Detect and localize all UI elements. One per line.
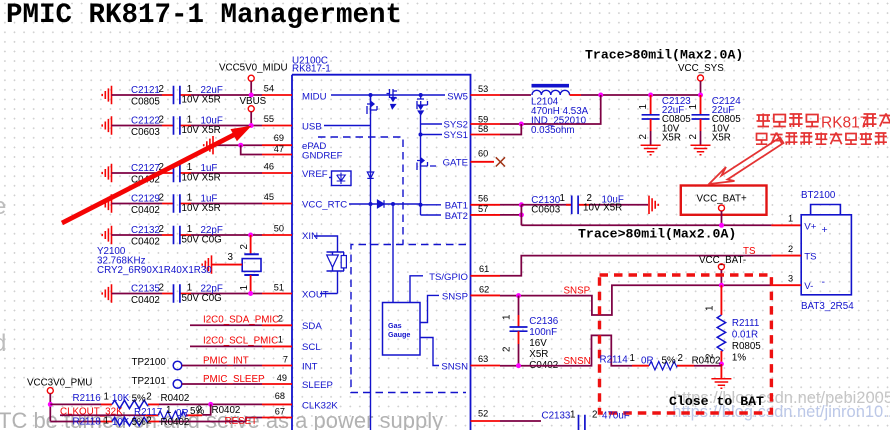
wire ePAD row bbox=[213, 144, 262, 146]
svg-text:2: 2 bbox=[146, 392, 151, 403]
wire C2123 to ground bbox=[650, 131, 652, 145]
junction CLK32K/R2117 bbox=[208, 402, 213, 407]
resistor R2111 lead top bbox=[720, 285, 722, 315]
internal wire TS/GPIO bbox=[410, 276, 423, 303]
test point TP2101 bbox=[173, 380, 182, 389]
svg-text:2: 2 bbox=[788, 244, 793, 254]
wire VCC5V0_MIDU stem bbox=[250, 81, 252, 95]
junction VCC3V0/R2116 bbox=[48, 402, 53, 407]
svg-text:SW5: SW5 bbox=[447, 92, 468, 103]
svg-text:X5R: X5R bbox=[662, 132, 681, 143]
internal vertical SYS/BAT rail bbox=[420, 115, 422, 215]
svg-text:1: 1 bbox=[104, 416, 109, 427]
internal wire to gas gauge bbox=[392, 204, 394, 303]
power symbol VCC_BAT+ bbox=[719, 205, 725, 211]
pin 62 stub (right) bbox=[471, 294, 501, 296]
svg-text:10K: 10K bbox=[112, 417, 130, 428]
svg-text:63: 63 bbox=[478, 354, 488, 364]
svg-text:RK817-1: RK817-1 bbox=[292, 64, 331, 75]
svg-text:R2116: R2116 bbox=[73, 393, 102, 404]
svg-text:XOUT: XOUT bbox=[302, 290, 329, 301]
svg-text:1: 1 bbox=[705, 306, 716, 311]
junction XOUT row bbox=[248, 291, 253, 296]
wire BAT junction drop bbox=[520, 205, 522, 226]
svg-text:10V X5R: 10V X5R bbox=[182, 125, 221, 136]
svg-text:1%: 1% bbox=[732, 353, 746, 364]
svg-text:VREF: VREF bbox=[302, 169, 328, 180]
svg-text:7: 7 bbox=[283, 355, 288, 365]
gas gauge box bbox=[383, 303, 421, 356]
svg-text:1: 1 bbox=[187, 115, 192, 126]
ground symbol (ePAD row) bbox=[204, 136, 213, 154]
svg-text:e: e bbox=[0, 193, 6, 220]
transistor Q internal GATE fet bbox=[417, 159, 436, 171]
svg-text:10V X5R: 10V X5R bbox=[182, 95, 221, 106]
resistor R2116 leads bbox=[101, 403, 159, 405]
svg-text:C0402: C0402 bbox=[131, 295, 160, 306]
svg-text:2: 2 bbox=[146, 416, 151, 427]
wire SW5 to inductor bbox=[500, 94, 531, 96]
capacitor C2122 leads bbox=[162, 125, 191, 127]
junction C2136 bottom bbox=[516, 363, 521, 368]
svg-text:C2132: C2132 bbox=[131, 225, 160, 236]
svg-text:d: d bbox=[0, 330, 6, 357]
svg-text:2: 2 bbox=[159, 115, 164, 126]
ground symbol (R2111) bbox=[711, 379, 731, 388]
wire C2129 row left bbox=[112, 203, 163, 205]
wire SYS2 bbox=[500, 123, 521, 125]
svg-text:PMIC_INT: PMIC_INT bbox=[203, 355, 249, 366]
highlight box VCC_BAT+ bbox=[681, 186, 767, 215]
svg-text:1: 1 bbox=[187, 84, 192, 95]
svg-text:1: 1 bbox=[187, 162, 192, 173]
svg-text:I2C0_SDA_PMIC: I2C0_SDA_PMIC bbox=[203, 315, 279, 326]
svg-text:SNSN: SNSN bbox=[441, 362, 468, 373]
pin 52 stub (right) bbox=[471, 420, 501, 422]
transistor Q internal 1 bbox=[367, 95, 377, 114]
svg-text:45: 45 bbox=[264, 192, 274, 202]
pin 63 stub (right) bbox=[471, 365, 501, 367]
capacitor C2122 bbox=[174, 116, 180, 135]
wire C2132 row left bbox=[112, 234, 163, 236]
svg-text:SNSN: SNSN bbox=[564, 356, 591, 367]
wire RESET row (CLKOUT segment) bbox=[60, 414, 145, 416]
ground symbol (crystal pin3) bbox=[202, 255, 211, 273]
junction XIN row bbox=[248, 233, 253, 238]
svg-text:C2129: C2129 bbox=[131, 194, 160, 205]
svg-text:58: 58 bbox=[478, 124, 488, 134]
svg-text:I2C0_SCL_PMIC: I2C0_SCL_PMIC bbox=[203, 336, 278, 347]
svg-text:C0402: C0402 bbox=[131, 237, 160, 248]
capacitor C2136 lead bottom bbox=[518, 331, 520, 344]
oscillator XIN/XOUT internal bbox=[314, 236, 346, 294]
wire PMIC_INT bbox=[182, 365, 262, 367]
wire BAT2 bbox=[500, 214, 521, 216]
svg-text:C2133: C2133 bbox=[542, 411, 571, 422]
svg-text:2: 2 bbox=[159, 193, 164, 204]
svg-text:R0402: R0402 bbox=[161, 417, 190, 428]
internal stub BAT1 bbox=[421, 204, 442, 206]
svg-text:50: 50 bbox=[274, 224, 284, 234]
svg-text:0.035ohm: 0.035ohm bbox=[531, 125, 575, 136]
svg-text:2: 2 bbox=[688, 134, 699, 139]
svg-text:MIDU: MIDU bbox=[302, 92, 327, 103]
resistor R2111 lead bottom bbox=[720, 351, 722, 364]
wire battery V+ pin 1 bbox=[771, 224, 801, 226]
svg-text:3: 3 bbox=[228, 252, 234, 263]
svg-text:2: 2 bbox=[159, 84, 164, 95]
svg-text:69: 69 bbox=[274, 133, 284, 143]
wire R2111 to ground bbox=[720, 364, 722, 379]
wire SYS1 riser bbox=[500, 124, 521, 135]
internal dashed boundary 2 bbox=[351, 245, 466, 393]
pin 1 stub (left) bbox=[262, 345, 292, 347]
svg-text:SLEEP: SLEEP bbox=[302, 380, 333, 391]
pin 51 stub (left) bbox=[262, 293, 292, 295]
capacitor C2129 leads bbox=[162, 203, 191, 205]
svg-text:C0402: C0402 bbox=[131, 205, 160, 216]
wire RESET row to pin 67 bbox=[246, 418, 262, 422]
annotation Chinese trailing glyphs (cut) bbox=[863, 114, 890, 128]
svg-text:1: 1 bbox=[278, 335, 283, 345]
svg-text:VCC_SYS: VCC_SYS bbox=[678, 63, 724, 74]
svg-text:46: 46 bbox=[264, 162, 274, 172]
svg-text:BAT2: BAT2 bbox=[445, 211, 468, 222]
wire C2122 row right bbox=[191, 125, 262, 127]
svg-text:C2136: C2136 bbox=[529, 316, 558, 327]
svg-text:59: 59 bbox=[478, 115, 488, 125]
svg-text:16V: 16V bbox=[529, 338, 547, 349]
wire I2C0_SDA_PMIC bbox=[190, 324, 262, 326]
wire VCC_SYS rail bbox=[581, 94, 701, 96]
capacitor C2123 bbox=[642, 115, 660, 119]
wire C2135 row right bbox=[191, 293, 262, 295]
pin 69 stub (left) bbox=[262, 144, 292, 146]
svg-text:Gas: Gas bbox=[388, 321, 402, 330]
wire BAT1 bbox=[500, 204, 521, 206]
capacitor C2124 lead bottom bbox=[700, 119, 702, 131]
svg-text:R2118: R2118 bbox=[73, 417, 102, 428]
ground symbol (C2135 row) bbox=[102, 284, 111, 302]
svg-text:PMIC_SLEEP: PMIC_SLEEP bbox=[203, 374, 265, 385]
op-amp/IC U2100C RK817-1 block outline bbox=[292, 75, 471, 430]
svg-text:2: 2 bbox=[638, 134, 649, 139]
power symbol VCC5V0_MIDU bbox=[248, 75, 254, 81]
pin 57 stub (right) bbox=[471, 214, 501, 216]
transistor Q internal 3 (arrow down) bbox=[417, 95, 428, 115]
svg-text:GATE: GATE bbox=[443, 158, 468, 169]
svg-text:5%: 5% bbox=[132, 417, 146, 428]
wire R2117 to junction bbox=[202, 404, 211, 415]
internal junction BAT1 bbox=[419, 203, 423, 207]
capacitor C2130 leads bbox=[566, 204, 589, 206]
wire VCC_BAT+ rail bbox=[521, 224, 771, 226]
svg-text:1: 1 bbox=[570, 410, 575, 421]
wire C2121 row left bbox=[112, 94, 163, 96]
svg-text:3: 3 bbox=[788, 274, 793, 284]
svg-text:-: - bbox=[822, 276, 826, 288]
junction VCC_BAT- node bbox=[719, 283, 724, 288]
junction VCC_BAT+ bbox=[719, 223, 724, 228]
wire battery TS pin 2 bbox=[771, 255, 801, 257]
internal long vertical rail bbox=[370, 95, 372, 430]
internal stub SYS2 bbox=[421, 123, 443, 125]
svg-text:56: 56 bbox=[478, 194, 488, 204]
test point TP2100 bbox=[173, 361, 182, 370]
svg-text:TS/GPIO: TS/GPIO bbox=[429, 272, 468, 283]
svg-text:RK817: RK817 bbox=[821, 115, 868, 132]
diode D internal (on rail) bbox=[367, 172, 373, 178]
capacitor C2123 lead bottom bbox=[650, 119, 652, 131]
wire C2122 row left bbox=[112, 125, 163, 127]
svg-text:1: 1 bbox=[187, 283, 192, 294]
ground symbol (C2127 row) bbox=[102, 164, 111, 182]
wire SNSP net bbox=[500, 285, 771, 315]
svg-text:CRY2_6R90X1R40X1R30: CRY2_6R90X1R40X1R30 bbox=[97, 265, 212, 276]
wire C2132 row right bbox=[191, 234, 262, 236]
svg-text:61: 61 bbox=[479, 264, 489, 274]
wire PMIC_SLEEP bbox=[182, 383, 262, 385]
capacitor C2127 bbox=[174, 164, 180, 183]
junction USB row bbox=[249, 123, 254, 128]
svg-text:SNSP: SNSP bbox=[442, 292, 468, 303]
svg-text:VCC5V0_MIDU: VCC5V0_MIDU bbox=[219, 63, 288, 74]
capacitor C2127 leads bbox=[162, 172, 191, 174]
resistor R2116 bbox=[112, 400, 148, 408]
svg-text:100nF: 100nF bbox=[529, 327, 557, 338]
junction BAT1 bbox=[519, 202, 524, 207]
svg-text:1: 1 bbox=[688, 104, 699, 109]
wire CLK32K row left bbox=[50, 403, 101, 405]
wire CLK32K row right bbox=[159, 403, 262, 405]
svg-text:VCC3V0_PMU: VCC3V0_PMU bbox=[27, 377, 92, 388]
wire crystal pin1 bbox=[250, 275, 252, 294]
ground symbol (C2123) bbox=[641, 145, 661, 154]
svg-text:SYS1: SYS1 bbox=[443, 130, 468, 141]
power symbol VCC_BAT- bbox=[718, 264, 724, 270]
wire C2130 to ground bbox=[589, 204, 648, 206]
battery BT2100 bbox=[801, 205, 851, 295]
svg-text:Trace>80mil(Max2.0A): Trace>80mil(Max2.0A) bbox=[585, 48, 743, 63]
resistor R2117 leads bbox=[145, 414, 202, 416]
internal stub BAT2 bbox=[421, 214, 442, 216]
svg-text:1: 1 bbox=[560, 193, 565, 204]
wire SNSN net bbox=[500, 335, 632, 365]
svg-text:Gauge: Gauge bbox=[388, 330, 410, 339]
svg-text:57: 57 bbox=[478, 204, 488, 214]
pin 50 stub (left) bbox=[262, 234, 292, 236]
svg-text:52: 52 bbox=[478, 409, 488, 419]
svg-text:53: 53 bbox=[478, 84, 488, 94]
svg-text:GNDREF: GNDREF bbox=[302, 151, 343, 162]
pin 47 stub (left) bbox=[262, 154, 292, 156]
svg-text:51: 51 bbox=[274, 283, 284, 293]
svg-text:47: 47 bbox=[274, 144, 284, 154]
internal stub SYS1 bbox=[421, 134, 443, 136]
svg-text:2: 2 bbox=[239, 244, 250, 249]
svg-text:SYS2: SYS2 bbox=[443, 120, 468, 131]
wire battery V- pin 3 bbox=[771, 284, 801, 286]
svg-text:1: 1 bbox=[239, 285, 250, 290]
wire C2129 row right bbox=[191, 203, 262, 205]
svg-text:0R: 0R bbox=[641, 356, 654, 367]
svg-text:R0402: R0402 bbox=[692, 356, 721, 367]
svg-text:R2114: R2114 bbox=[600, 355, 629, 366]
svg-text:67: 67 bbox=[275, 407, 285, 417]
svg-text:0.01R: 0.01R bbox=[732, 330, 758, 341]
ground symbol (C2132 row) bbox=[102, 226, 111, 244]
svg-text:2: 2 bbox=[678, 353, 683, 364]
svg-text:C0603: C0603 bbox=[131, 127, 160, 138]
internal junction bbox=[419, 93, 423, 97]
internal junction SYS1 bbox=[419, 133, 423, 137]
junction BAT2 bbox=[519, 212, 524, 217]
svg-text:55: 55 bbox=[264, 114, 274, 124]
junction R2111 bottom bbox=[719, 362, 724, 367]
ground symbol (C2130, sideways right) bbox=[649, 196, 658, 214]
svg-text:BT2100: BT2100 bbox=[801, 190, 836, 201]
ground symbol (C2124) bbox=[691, 145, 711, 154]
pin 54 stub (left) bbox=[262, 94, 292, 96]
capacitor C2132 bbox=[174, 226, 180, 245]
pin 58 stub (right) bbox=[471, 134, 501, 136]
power symbol VCC_SYS bbox=[698, 75, 704, 81]
svg-text:PMIC RK817-1 Managerment: PMIC RK817-1 Managerment bbox=[6, 0, 402, 31]
svg-text:10V X5R: 10V X5R bbox=[583, 203, 622, 214]
inductor L2104 leads bbox=[570, 94, 581, 96]
svg-text:1: 1 bbox=[166, 405, 171, 416]
svg-text:TP2100: TP2100 bbox=[132, 357, 167, 368]
svg-text:C0603: C0603 bbox=[531, 205, 560, 216]
pin 46 stub (left) bbox=[262, 172, 292, 174]
svg-text:CLK32K: CLK32K bbox=[302, 401, 338, 412]
svg-text:USB: USB bbox=[302, 122, 322, 133]
annotation arrow to VBUS junction bbox=[62, 126, 252, 223]
power symbol VCC3V0_PMU bbox=[47, 388, 53, 394]
svg-text:10V X5R: 10V X5R bbox=[182, 203, 221, 214]
wire I2C0_SCL_PMIC bbox=[190, 345, 262, 347]
annotation Chinese text line 1 (fake glyph strokes) bbox=[757, 114, 819, 128]
svg-text:2: 2 bbox=[592, 410, 597, 421]
pin 56 stub (right) bbox=[471, 204, 501, 206]
svg-text:1: 1 bbox=[187, 224, 192, 235]
wire TS net bbox=[500, 256, 771, 276]
svg-text:62: 62 bbox=[479, 285, 489, 295]
capacitor C2124 bbox=[692, 115, 710, 119]
wire crystal pin2 bbox=[250, 235, 252, 254]
internal wire SNSP bbox=[420, 295, 439, 322]
resistor R2111 bbox=[717, 315, 725, 351]
svg-text:+: + bbox=[822, 224, 828, 236]
capacitor C2132 leads bbox=[162, 234, 191, 236]
pin 45 stub (left) bbox=[262, 203, 292, 205]
svg-text:C2122: C2122 bbox=[131, 116, 160, 127]
junction MIDU row bbox=[249, 93, 254, 98]
svg-text:1: 1 bbox=[502, 315, 513, 320]
wire C2127 row right bbox=[191, 172, 262, 174]
svg-text:C2135: C2135 bbox=[131, 284, 160, 295]
svg-text:470uF: 470uF bbox=[602, 411, 630, 422]
no-connect X at GATE bbox=[496, 157, 505, 166]
wire C2121 row right bbox=[191, 94, 262, 96]
svg-text:50V C0G: 50V C0G bbox=[182, 235, 222, 246]
svg-text:54: 54 bbox=[264, 84, 274, 94]
internal junction bbox=[369, 93, 373, 97]
svg-text:R0402: R0402 bbox=[161, 393, 190, 404]
svg-text:49: 49 bbox=[277, 373, 287, 383]
svg-text:SDA: SDA bbox=[302, 321, 322, 332]
wire VBUS stem bbox=[250, 112, 252, 126]
internal junction gauge feed bbox=[391, 202, 395, 206]
resistor R2114 leads bbox=[632, 365, 694, 367]
svg-text:1: 1 bbox=[638, 104, 649, 109]
wire VCC3V0_PMU stem bbox=[49, 394, 51, 421]
capacitor C2135 leads bbox=[162, 293, 191, 295]
wire GNDREF branch bbox=[241, 145, 262, 154]
ground symbol (C2121 row) bbox=[102, 86, 111, 104]
svg-text:60: 60 bbox=[478, 149, 488, 159]
wire VCC_SYS stem bbox=[700, 81, 702, 95]
svg-text:2: 2 bbox=[159, 224, 164, 235]
wire C2124 to ground bbox=[700, 131, 702, 145]
wire BAT1 to C2130 bbox=[521, 204, 571, 206]
svg-text:V+: V+ bbox=[804, 222, 816, 233]
capacitor C2133 (cut) bbox=[579, 415, 585, 430]
pin 60 stub (right) bbox=[471, 161, 495, 163]
ground symbol (C2122 row) bbox=[102, 116, 111, 134]
svg-text:R2111: R2111 bbox=[732, 318, 759, 329]
resistor R2118 (partially cut) bbox=[50, 421, 101, 423]
svg-text:C2121: C2121 bbox=[131, 85, 160, 96]
zener box VREF bbox=[329, 171, 351, 186]
svg-text:50V C0G: 50V C0G bbox=[182, 293, 222, 304]
pin 2 stub (left) bbox=[262, 324, 292, 326]
svg-text:TS: TS bbox=[804, 252, 816, 263]
junction C2123 bbox=[648, 93, 653, 98]
svg-text:5%: 5% bbox=[132, 394, 146, 405]
svg-text:INT: INT bbox=[302, 362, 318, 373]
ground symbol (C2129 row) bbox=[102, 194, 111, 212]
wire C2127 row left bbox=[112, 172, 163, 174]
wire VCC_BAT+ stem bbox=[721, 211, 723, 225]
pin 7 stub (left) bbox=[262, 365, 292, 367]
svg-text:SCL: SCL bbox=[302, 342, 321, 353]
internal junction VCC_RTC rail bbox=[369, 202, 373, 206]
svg-text:VBUS: VBUS bbox=[240, 96, 267, 107]
svg-text:C0805: C0805 bbox=[131, 97, 160, 108]
svg-text:V-: V- bbox=[804, 281, 813, 292]
junction L2104 out bbox=[598, 93, 603, 98]
svg-text:Close to BAT: Close to BAT bbox=[669, 394, 764, 409]
capacitor C2130 bbox=[572, 196, 578, 215]
junction ePAD/GNDREF bbox=[238, 143, 243, 148]
pin 68 stub (left) bbox=[262, 403, 292, 405]
svg-text:R0402: R0402 bbox=[212, 405, 241, 416]
wire C2135 row left bbox=[112, 293, 163, 295]
dashed annotation box Close to BAT bbox=[600, 275, 772, 413]
internal wire VCC_RTC bbox=[349, 203, 421, 205]
power symbol VBUS bbox=[248, 106, 254, 112]
pin 67 stub (left) bbox=[262, 417, 292, 419]
capacitor C2129 bbox=[174, 194, 180, 213]
resistor R2114 bbox=[649, 362, 677, 370]
svg-text:68: 68 bbox=[275, 391, 285, 401]
svg-text:2: 2 bbox=[197, 404, 202, 415]
wire pin 52 row (cut) bbox=[500, 420, 541, 422]
capacitor C2121 bbox=[174, 86, 180, 105]
svg-text:10K: 10K bbox=[112, 393, 130, 404]
internal dashed boundary 1 bbox=[318, 137, 403, 245]
